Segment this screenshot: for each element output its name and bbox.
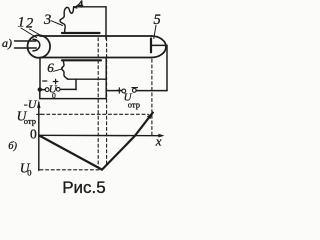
svg-text:3: 3 — [43, 12, 51, 28]
wire cathode lead upper — [15, 40, 37, 42]
dashed line anode position x106.6 — [106, 38, 108, 166]
minus sign Uotr — [132, 87, 137, 89]
svg-text:отр: отр — [128, 100, 140, 110]
pointer 1 — [21, 28, 37, 38]
tube right end cap — [152, 36, 167, 58]
battery U0 terminal right — [56, 87, 60, 91]
label Uotr battery — [124, 91, 140, 109]
wire screen lead — [151, 44, 167, 46]
dashed line screen position x152 — [151, 59, 153, 136]
wire screen down — [166, 45, 168, 90]
wire junction down — [39, 90, 41, 99]
curve arrow head — [147, 112, 153, 119]
battery Uotr terminal right — [132, 89, 136, 93]
pointer 2 — [30, 29, 42, 36]
graph x axis — [39, 134, 162, 136]
pointer 4 — [74, 4, 79, 8]
svg-text:x: x — [155, 133, 162, 148]
battery U0 wire left — [40, 89, 45, 91]
dashed level Uotr — [41, 113, 148, 115]
junction dot — [38, 87, 42, 91]
plus sign Uotr — [117, 88, 122, 93]
cathode button K — [33, 39, 40, 51]
svg-text:5: 5 — [154, 12, 161, 28]
label Uotr axis — [17, 109, 36, 127]
curve rising branch — [102, 113, 153, 170]
graph x axis arrow — [158, 134, 164, 138]
tick Uotr level — [37, 113, 41, 115]
battery Uotr terminal left — [122, 89, 126, 93]
svg-text:4: 4 — [78, 0, 84, 10]
screen electrode plate — [150, 39, 152, 53]
flexible lead squiggle top — [60, 7, 74, 33]
electron gun bulb circle — [28, 35, 51, 58]
pointer 6 — [54, 69, 63, 72]
dashed line grid position x98 — [97, 38, 99, 167]
battery Uotr wire right — [136, 90, 167, 92]
svg-text:отр: отр — [24, 116, 36, 126]
tube top wall — [40, 35, 152, 37]
svg-text:б): б) — [8, 141, 17, 152]
label U0 axis — [20, 160, 32, 177]
pointer 5 — [154, 25, 156, 38]
battery U0 terminal left — [45, 88, 49, 92]
graph y axis arrow — [37, 100, 40, 108]
flexible lead squiggle bottom — [62, 61, 68, 79]
graph y axis — [38, 103, 40, 171]
svg-text:0: 0 — [30, 126, 37, 141]
wire bottom y98 — [40, 98, 106, 100]
wire cathode down — [39, 58, 41, 90]
label U0 — [49, 84, 58, 100]
plus sign U0 — [53, 79, 58, 84]
svg-text:6: 6 — [47, 60, 54, 75]
wire battery riser x76 — [75, 79, 77, 89]
electrode strip top (3) — [62, 32, 100, 34]
svg-text:а): а) — [2, 36, 12, 50]
svg-text:0: 0 — [52, 91, 56, 100]
curve descending branch — [39, 136, 102, 170]
pointer 3 — [52, 21, 63, 26]
minus sign U0 — [43, 80, 47, 82]
dashed level U0 — [40, 169, 100, 171]
wire cathode lead lower — [15, 47, 37, 49]
electrode strip bottom (6) — [62, 59, 101, 61]
wire main vertical x106 — [105, 58, 107, 99]
wire top to tube — [74, 7, 106, 39]
tube bottom wall — [40, 57, 152, 59]
battery U0 wire right — [60, 88, 76, 90]
battery Uotr wire left — [106, 90, 122, 92]
svg-text:Рис.5: Рис.5 — [62, 178, 106, 197]
wire y79 — [67, 78, 106, 80]
svg-text:0: 0 — [27, 168, 31, 178]
